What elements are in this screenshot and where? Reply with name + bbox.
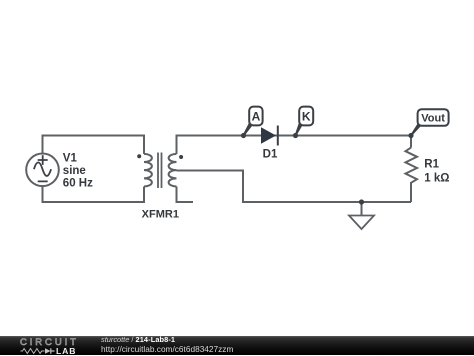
svg-text:sine: sine [63,165,86,177]
svg-text:Vout: Vout [421,112,445,124]
svg-text:D1: D1 [263,149,278,161]
svg-text:1 kΩ: 1 kΩ [424,173,449,185]
svg-text:K: K [302,109,311,123]
svg-text:V1: V1 [63,152,78,164]
svg-text:XFMR1: XFMR1 [142,208,179,220]
svg-text:R1: R1 [424,158,439,170]
svg-text:60 Hz: 60 Hz [63,177,93,189]
svg-text:A: A [252,109,261,123]
